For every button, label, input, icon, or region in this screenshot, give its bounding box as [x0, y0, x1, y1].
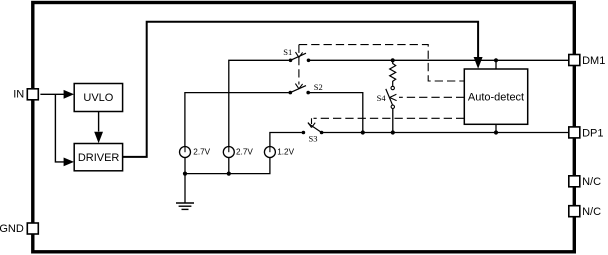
pin GND: [0, 223, 38, 235]
wire V1 to S2: [185, 93, 289, 147]
wire S2 to DP1 rail: [308, 93, 363, 133]
block DRIVER: [74, 144, 122, 171]
wire UVLO to DRIVER: [94, 112, 103, 144]
switch S4: [377, 86, 395, 108]
node DM1 stub: [494, 58, 498, 62]
block UVLO: [74, 84, 122, 112]
wire IN branch to DRIVER: [55, 94, 74, 166]
svg-text:S4: S4: [377, 93, 387, 103]
pin N/C lower: [569, 206, 601, 218]
voltage source V3 1.2V: [264, 147, 294, 158]
ground: [176, 174, 194, 210]
svg-text:DM1: DM1: [582, 55, 605, 67]
svg-text:UVLO: UVLO: [83, 92, 113, 104]
svg-text:Auto-detect: Auto-detect: [468, 91, 524, 103]
wire V3 to S3: [270, 133, 302, 147]
node S2 riser: [361, 130, 365, 134]
svg-text:DP1: DP1: [582, 127, 603, 139]
wire V2 to S1 (DM1 rail left): [229, 60, 289, 146]
bus wire sources to ground: [183, 157, 270, 175]
voltage source V1 2.7V: [180, 147, 211, 158]
wire IN to UVLO: [40, 90, 74, 99]
svg-text:2.7V: 2.7V: [236, 148, 253, 157]
voltage source V2 2.7V: [223, 147, 253, 158]
switch S1: [283, 47, 310, 62]
svg-text:S1: S1: [283, 47, 292, 57]
wire DM1 rail: [309, 58, 569, 69]
pin N/C upper: [569, 176, 601, 188]
wire S4 to DP1 rail: [392, 109, 394, 133]
dashed control S4: [390, 94, 465, 100]
switch S2: [289, 82, 323, 94]
block Auto-detect: [464, 69, 527, 124]
svg-text:N/C: N/C: [582, 206, 601, 218]
wire DP1 rail: [322, 124, 569, 134]
svg-text:DRIVER: DRIVER: [78, 152, 120, 164]
power path DRIVER to Auto-detect (thick arrow): [122, 22, 482, 157]
dashed control S3: [308, 118, 464, 127]
svg-text:2.7V: 2.7V: [193, 148, 210, 157]
node S4 bottom: [391, 130, 395, 134]
svg-text:N/C: N/C: [582, 176, 601, 188]
resistor: [390, 60, 396, 86]
svg-text:GND: GND: [0, 223, 24, 235]
dashed control S1 S2: [295, 45, 302, 89]
node DP1 stub: [494, 130, 498, 134]
svg-text:S2: S2: [314, 82, 323, 92]
node resistor top: [391, 58, 395, 62]
pin IN: [13, 88, 38, 100]
pin DM1: [569, 55, 606, 67]
svg-text:1.2V: 1.2V: [277, 148, 294, 157]
node bus-ground: [183, 172, 187, 176]
svg-text:IN: IN: [13, 88, 24, 100]
pin DP1: [569, 127, 604, 139]
switch S3: [302, 123, 324, 143]
dashed control to Auto-detect (top run): [299, 45, 464, 81]
svg-text:S3: S3: [309, 134, 318, 144]
node bus-V2: [227, 172, 231, 176]
